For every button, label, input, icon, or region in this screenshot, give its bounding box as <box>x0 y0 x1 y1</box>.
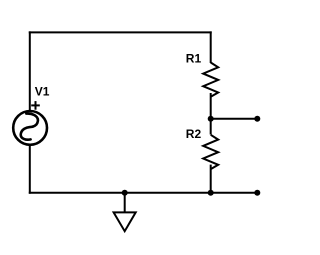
node ground junction dot <box>122 190 128 196</box>
svg-text:V1: V1 <box>35 85 50 99</box>
wire bottom (ground rail) <box>29 192 257 194</box>
wire right upper (top rail down to R1) <box>210 31 212 63</box>
wire R1 bottom to middle node <box>210 93 212 119</box>
node middle output terminal dot <box>254 116 260 122</box>
node bottom junction dot <box>208 190 214 196</box>
svg-text:R1: R1 <box>186 52 202 66</box>
voltage source V1 plus sign <box>31 101 40 110</box>
node bottom output terminal dot <box>254 190 260 196</box>
ground <box>114 212 136 231</box>
wire top (V1 plus to R1 top) <box>29 31 212 33</box>
wire left upper (top rail down to V1 positive terminal) <box>29 31 31 110</box>
wire middle output tap <box>211 118 258 120</box>
wire R2 bottom to bottom rail <box>210 165 212 193</box>
voltage source V1 body (AC source circle) <box>13 111 47 145</box>
resistor R2 <box>203 135 218 169</box>
voltage source V1 sine wave symbol <box>21 114 38 140</box>
svg-text:R2: R2 <box>186 127 202 141</box>
resistor R1 <box>203 63 218 97</box>
wire left lower (V1 negative terminal down to bottom rail) <box>29 146 31 194</box>
wire middle node to R2 top <box>210 119 212 135</box>
wire ground stub <box>124 193 126 213</box>
node middle junction dot <box>208 116 214 122</box>
